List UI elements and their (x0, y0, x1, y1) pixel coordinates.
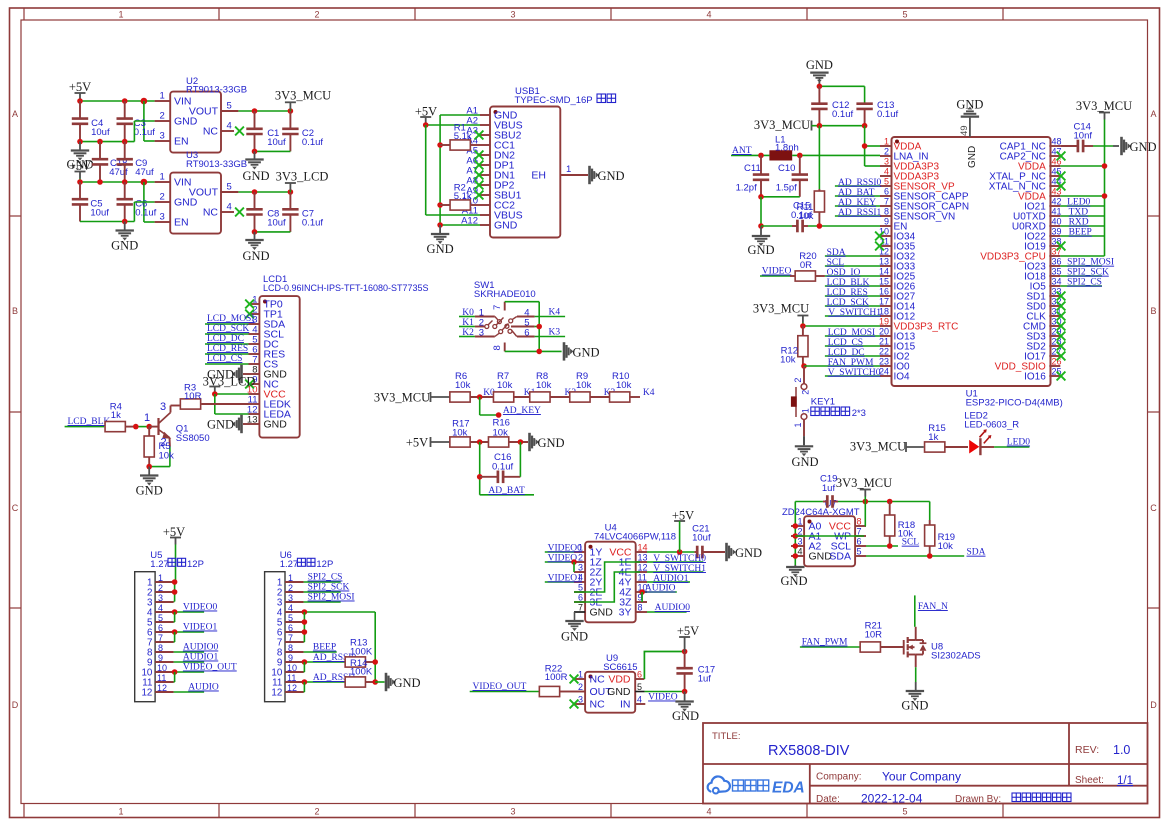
svg-text:10uf: 10uf (267, 137, 286, 148)
wire SDA pin5 (866, 555, 964, 557)
svg-text:0.1uf: 0.1uf (135, 208, 156, 219)
svg-text:K4: K4 (643, 388, 655, 398)
junction VOUT at C1 (252, 108, 258, 114)
title block rev/sheet divider (1068, 723, 1070, 786)
LCD1 pin 8 GND (249, 373, 260, 375)
svg-text:AD_KEY: AD_KEY (503, 406, 541, 416)
U7 pin 7 WP (855, 535, 866, 537)
svg-text:GND: GND (242, 249, 269, 263)
svg-text:ESP32-PICO-D4(4MB): ESP32-PICO-D4(4MB) (966, 398, 1063, 409)
svg-text:OSD_IO: OSD_IO (827, 268, 861, 278)
net label FAN_PWM wire (800, 646, 860, 648)
U3 gnd rail wire (80, 221, 134, 223)
wire 3V3 rail down right side (1104, 146, 1106, 256)
U4 pin 7 GND (574, 611, 585, 613)
ground (SW1) sideways (563, 342, 566, 360)
svg-text:4: 4 (706, 807, 711, 817)
svg-text:A: A (1150, 109, 1156, 119)
svg-text:2: 2 (158, 583, 163, 593)
wire AD_BAT vertical (479, 442, 481, 495)
svg-text:6: 6 (884, 187, 889, 197)
svg-text:TYPEC-SMD_16P: TYPEC-SMD_16P (515, 95, 593, 106)
svg-text:5: 5 (158, 613, 163, 623)
U5 pin 6 (155, 631, 174, 633)
svg-text:4: 4 (227, 121, 232, 132)
resistor R20 (790, 275, 796, 277)
svg-text:LCD-0.96INCH-IPS-TFT-16080-ST7: LCD-0.96INCH-IPS-TFT-16080-ST7735S (263, 283, 429, 293)
junction rail gnd (536, 349, 542, 355)
junction GND loop at A12 (437, 222, 443, 228)
frame row ticks left (10, 215, 22, 217)
resistor R6 (450, 392, 470, 402)
svg-text:1: 1 (118, 807, 123, 817)
U3 pin 2 GND (155, 201, 171, 203)
U7 pin 3 A2 (791, 545, 804, 547)
net label LCD_BLK wire (65, 426, 105, 428)
title block row divider 2 (810, 785, 1148, 787)
resistor R22 (539, 686, 559, 696)
wire SCL pin6 (866, 545, 898, 547)
svg-text:6: 6 (158, 623, 163, 633)
wire SW1 pin8 to gnd (505, 350, 562, 352)
title block logo cell divider (809, 764, 811, 804)
resistor R21 (860, 642, 880, 652)
net label LCD_RES wire pin16 (825, 295, 880, 297)
frame row ticks right (1148, 215, 1160, 217)
U1 pin 30 CMD (1049, 325, 1060, 327)
svg-text:1: 1 (158, 573, 163, 583)
junction U3 VOUT at C7/3V3_LCD (288, 189, 294, 195)
svg-text:12: 12 (157, 683, 167, 693)
junction +5V A2 (423, 122, 429, 128)
junction SCL R18 (887, 543, 893, 549)
U6 pin 6 (285, 631, 304, 633)
net label AD_RSSI0 wire pin5 (835, 185, 880, 187)
net label AD_RSSI1 wire pin8 (835, 215, 880, 217)
switch KEY1 lead from R12 (803, 366, 805, 384)
svg-text:1.27: 1.27 (280, 559, 299, 570)
svg-text:EN: EN (174, 136, 189, 148)
svg-text:6: 6 (637, 670, 642, 680)
svg-text:GND: GND (136, 484, 163, 498)
svg-text:GND: GND (901, 699, 928, 713)
svg-text:24: 24 (879, 367, 889, 377)
svg-text:SCL: SCL (827, 258, 845, 268)
junction R4/base (133, 424, 139, 430)
USB1 pin A6 DP1 (480, 164, 490, 166)
svg-text:0.1uf: 0.1uf (302, 218, 323, 229)
jlc eda logo cloud (708, 776, 730, 791)
wire U3 VOUT to 3V3_LCD (238, 191, 290, 193)
svg-text:5: 5 (637, 682, 642, 692)
U7 pin1 marker (808, 520, 812, 524)
wire U5 VIDEO1 pin6 (174, 631, 205, 633)
svg-text:EN: EN (174, 217, 189, 229)
svg-text:7: 7 (288, 633, 293, 643)
svg-text:Your Company: Your Company (882, 770, 961, 784)
wire C14 to gnd (1093, 145, 1113, 147)
U7 pin 4 GND (791, 555, 804, 557)
U1 pin 33 SD1 (1049, 295, 1060, 297)
resistor R2 (440, 204, 450, 206)
resistor R16 (488, 437, 508, 447)
resistor R9 (570, 392, 590, 402)
svg-text:1: 1 (884, 137, 889, 147)
svg-text:1.27: 1.27 (150, 559, 169, 570)
svg-text:C: C (12, 503, 19, 513)
svg-text:K3: K3 (549, 328, 561, 338)
LCD1 pin 9 NC (249, 383, 260, 385)
U1 pin 41 U0TXD (1049, 215, 1060, 217)
svg-text:7: 7 (492, 305, 503, 310)
ground (U8) (906, 690, 924, 692)
drawn by value (chinese) (1012, 793, 1021, 802)
ground (divider) sideways (528, 433, 531, 451)
junction U3 gnd rail at C6 (122, 219, 128, 225)
capacitor C10 (799, 155, 801, 174)
svg-text:10k: 10k (497, 380, 513, 391)
wire C12/C13 top rail (819, 85, 864, 87)
svg-text:100R: 100R (545, 672, 568, 683)
wire 3V3 to pin19 (803, 325, 880, 327)
junction U5 pin2 +5V (172, 589, 178, 595)
LCD1 pin 11 LEDK (249, 403, 260, 405)
svg-text:FAN_PWM: FAN_PWM (802, 638, 848, 648)
svg-text:GND: GND (572, 345, 599, 359)
net label AUDIO1 wire pin11 (647, 581, 690, 583)
wire SW1 pin7 to right rail (505, 301, 540, 303)
USB1 pin A11 VBUS (480, 214, 490, 216)
svg-text:100K: 100K (350, 667, 373, 678)
USB1 chinese label ChenBan (597, 94, 606, 103)
wire AD_BAT bottom (480, 494, 534, 496)
svg-text:AD_RSSI1: AD_RSSI1 (838, 208, 882, 218)
LCD1 pin 5 DC (249, 343, 260, 345)
U1 pin 3 VDDA3P3 (880, 165, 892, 167)
capacitor C15 in EN line (761, 225, 792, 227)
svg-text:LCD_MOSI: LCD_MOSI (828, 328, 876, 338)
junction base/R5 (146, 424, 152, 430)
svg-text:39: 39 (1052, 227, 1062, 237)
wire U5 AUDIO1 pin9 (174, 661, 205, 663)
wire R4 to Q1 base (126, 426, 136, 428)
svg-text:GND: GND (590, 607, 614, 619)
U7 pin 6 SCL (855, 545, 866, 547)
capacitor C4 (79, 101, 81, 119)
svg-text:1: 1 (160, 91, 165, 102)
wire U4 pin5 2E to pin13 staircase (574, 562, 640, 592)
U1 pin 17 IO14 (880, 305, 892, 307)
wire U6 pin11-pin12 (303, 682, 305, 692)
junction 3V3_LCD node (212, 391, 218, 397)
wire U7 gnd vertical left (794, 502, 796, 566)
net label SPI2_CS wire pin34 (1060, 285, 1102, 287)
wire U6 AD_RSSI1 pin11 to R14 (304, 681, 345, 683)
wire 3V3 down to R11 (818, 126, 820, 189)
ground (U2 output caps) (254, 151, 256, 158)
junction EN gnd node (758, 223, 764, 229)
svg-text:AUDIO1: AUDIO1 (183, 653, 219, 663)
USB1 pin A2 VBUS (480, 124, 490, 126)
svg-text:D: D (1150, 700, 1157, 710)
junction AD_KEY tap (477, 394, 483, 400)
svg-text:10k: 10k (576, 380, 592, 391)
U4 pin 6 3E (574, 601, 585, 603)
junction +5V / C17 top (682, 649, 688, 655)
U2 pin 2 GND (155, 120, 171, 122)
svg-text:IN: IN (620, 699, 631, 711)
op-amp U9 SC6615 body (585, 672, 635, 713)
svg-text:13: 13 (879, 257, 889, 267)
wire R12 bottom (802, 357, 804, 364)
frame column ticks top (23, 8, 25, 20)
svg-text:10nf: 10nf (1074, 131, 1093, 142)
junction L1 right at C10 (797, 153, 803, 159)
ground (Q1 emitter) (148, 467, 150, 475)
svg-text:1k: 1k (928, 432, 938, 443)
svg-text:ZD24C64A-XGMT: ZD24C64A-XGMT (782, 507, 860, 518)
junction SDA R19 (927, 553, 933, 559)
svg-text:VIDEO0: VIDEO0 (183, 603, 218, 613)
svg-text:GND: GND (427, 242, 454, 256)
svg-text:0.1uf: 0.1uf (877, 109, 898, 120)
svg-text:ANT: ANT (732, 146, 752, 156)
net label LCD_CS wire pin7 (205, 363, 249, 365)
svg-text:1: 1 (797, 517, 802, 527)
svg-text:10k: 10k (493, 428, 509, 439)
svg-text:V_SWITCH0: V_SWITCH0 (828, 368, 881, 378)
wire U5 VIDEO_OUT pin10 (174, 671, 205, 673)
frame column ticks bottom (23, 804, 25, 818)
wire pin23 FAN_PWM (804, 365, 880, 367)
resistor R11 (818, 189, 820, 191)
svg-text:8: 8 (638, 603, 643, 613)
svg-text:20: 20 (879, 327, 889, 337)
USB1 pin EH (560, 174, 588, 176)
wire SW1 pin4 to K4 (517, 316, 535, 318)
wire C1-C2 bottom (255, 150, 291, 152)
U7 pin 5 SDA (855, 555, 866, 557)
svg-text:1uf: 1uf (698, 674, 712, 685)
net label BEEP wire pin39 (1060, 235, 1104, 237)
svg-text:1/1: 1/1 (1117, 775, 1133, 787)
svg-text:SS8050: SS8050 (176, 433, 210, 444)
U7 pin 8 VCC (855, 525, 866, 527)
no-connect cross U9 pin3 (570, 700, 579, 709)
svg-text:8: 8 (158, 643, 163, 653)
U3 pin 3 EN (155, 221, 171, 223)
svg-text:48: 48 (1052, 137, 1062, 147)
svg-text:10k: 10k (455, 380, 471, 391)
net label V_SWITCH0 wire pin24 (825, 375, 880, 377)
svg-text:LCD_BLK: LCD_BLK (827, 278, 870, 288)
net label LED0 wire pin42 (1060, 205, 1104, 207)
U1 pin 23 IO0 (880, 365, 892, 367)
svg-text:SKRHADE010: SKRHADE010 (474, 289, 536, 300)
svg-text:3V3_MCU: 3V3_MCU (374, 391, 430, 405)
svg-text:10uf: 10uf (90, 208, 109, 219)
wire R9-R10 K3 (590, 396, 610, 398)
resistor R14 (345, 677, 365, 687)
svg-text:2: 2 (884, 147, 889, 157)
svg-text:C10: C10 (778, 163, 795, 174)
wire U3 EN tap down (143, 182, 145, 222)
svg-text:3: 3 (160, 131, 165, 142)
resistor R19 (929, 502, 931, 521)
svg-text:GND: GND (242, 169, 269, 183)
svg-text:GND: GND (561, 630, 588, 644)
svg-text:10k: 10k (536, 380, 552, 391)
wire U5 AUDIO0 pin8 (174, 651, 205, 653)
svg-text:Drawn By:: Drawn By: (955, 794, 1001, 805)
svg-text:3V3_LCD: 3V3_LCD (276, 170, 329, 184)
svg-text:VIDEO_OUT: VIDEO_OUT (473, 682, 527, 692)
U1 pin 4 VDDA3P3 (880, 175, 892, 177)
net label K1 wire (459, 326, 475, 328)
svg-text:3V3_MCU: 3V3_MCU (754, 118, 810, 132)
svg-text:+5V: +5V (406, 436, 428, 450)
svg-text:3: 3 (510, 10, 515, 20)
junction C17 bottom (682, 689, 688, 695)
net label V_SWITCH1 wire pin18 (825, 315, 880, 317)
svg-text:2: 2 (314, 807, 319, 817)
USB1 pin A12 GND (480, 224, 490, 226)
svg-text:1: 1 (118, 10, 123, 20)
junction U7 pin3 (793, 543, 799, 549)
U6 pin 9 (285, 661, 304, 663)
svg-text:V_SWITCH1: V_SWITCH1 (828, 308, 881, 318)
ground (C14) sideways (1120, 137, 1123, 155)
wire LED2 to LED0 label (980, 446, 994, 448)
svg-text:4: 4 (884, 167, 889, 177)
svg-text:GND: GND (791, 455, 818, 469)
svg-text:SPI2_CS: SPI2_CS (1067, 278, 1102, 288)
ground (C21) sideways (725, 543, 728, 561)
svg-text:7: 7 (578, 603, 583, 613)
svg-text:LED-0603_R: LED-0603_R (964, 420, 1019, 431)
wire U4 pin10-pin9 (641, 592, 643, 602)
svg-text:TITLE:: TITLE: (712, 731, 741, 742)
wire U4 pin2-pin3 (573, 562, 575, 572)
junction U4 pin2 (571, 559, 577, 565)
U5 pin 3 (155, 601, 174, 603)
ground (U9/C17) (684, 692, 686, 701)
svg-text:AD_KEY: AD_KEY (838, 198, 876, 208)
svg-text:47uf: 47uf (135, 167, 154, 178)
svg-text:13: 13 (247, 415, 258, 426)
svg-text:AUDIO0: AUDIO0 (655, 603, 691, 613)
junction U5 pin4 (172, 609, 178, 615)
net label V_SWITCH0 wire pin13 (647, 561, 703, 563)
net label SPI2_SCK wire pin35 (1060, 275, 1102, 277)
resistor R4 (105, 422, 125, 432)
svg-text:8: 8 (857, 517, 862, 527)
junction R12/KEY1/FAN_PWM (801, 363, 807, 369)
svg-text:10k: 10k (798, 211, 814, 222)
svg-text:19: 19 (879, 317, 889, 327)
wire 3V3_LCD down to LEDA pin12 (214, 394, 216, 414)
wire U6 pin9-pin10 (303, 662, 305, 672)
U9 pin 1 NC (574, 678, 585, 680)
U6 pin 8 (285, 651, 304, 653)
U6 pin 1 (285, 581, 304, 583)
wire U5 pin10-pin11 (174, 672, 176, 682)
capacitor C8 (254, 192, 256, 209)
no-connect crosses U1 pins 10,11 left (875, 232, 884, 241)
U1 pin 19 VDD3P3_RTC (880, 325, 892, 327)
svg-text:1.2pf: 1.2pf (736, 183, 757, 194)
U9 pin 6 VDD (635, 678, 644, 680)
U6 pin 5 (285, 621, 304, 623)
junction R14 right rail (372, 679, 378, 685)
U9 pin1 marker (589, 675, 593, 679)
transistor Q1 SS8050 (149, 426, 158, 428)
net label K2 wire (459, 336, 475, 338)
wire U4 pin6 3E to pin12 staircase (574, 572, 640, 602)
U1 pin 26 VDD_SDIO (1049, 365, 1060, 367)
junction R16/C16 right (518, 439, 524, 445)
U6 pin 4 (285, 611, 304, 613)
U5 pin 12 (155, 691, 174, 693)
ground (U3 input rail) (124, 222, 126, 230)
wire +5V down to U5 pins 1-3 (174, 582, 176, 602)
switch KEY1 membrane switch (801, 384, 807, 390)
svg-text:VIDEO: VIDEO (762, 267, 792, 277)
LCD1 pin 2 TP1 (249, 313, 260, 315)
svg-text:40: 40 (1052, 217, 1062, 227)
svg-text:LCD_RES: LCD_RES (827, 288, 868, 298)
svg-text:RXD: RXD (1069, 218, 1089, 228)
svg-text:GND: GND (607, 686, 631, 698)
U1 pin 39 IO22 (1049, 235, 1060, 237)
svg-text:A: A (12, 109, 18, 119)
wire VDDA rail down (864, 126, 866, 166)
svg-text:+5V: +5V (69, 80, 91, 94)
U7 pin 1 A0 (791, 525, 804, 527)
USB1 pin A7 DN1 (480, 174, 490, 176)
svg-text:4: 4 (158, 603, 163, 613)
svg-text:2: 2 (314, 10, 319, 20)
capacitor C21 (694, 551, 697, 553)
wire R21 to U8 gate (881, 646, 904, 648)
junction U3 rail at C5 (77, 179, 83, 185)
resistor R3 lead to LEDK pin11 (201, 403, 248, 405)
junction C16 left (477, 474, 483, 480)
U1 pin1 marker (895, 140, 899, 144)
U1 pin 14 IO25 (880, 275, 892, 277)
op-amp U7 ZD24C64A body (804, 516, 855, 566)
svg-text:21: 21 (879, 337, 889, 347)
U1 pin 46 VDDA (1049, 165, 1060, 167)
wire U6 pin4 to R13/R14 gnd rail (304, 611, 376, 613)
resistor R12 (802, 326, 804, 336)
svg-text:10k: 10k (159, 451, 175, 462)
svg-text:SC6615: SC6615 (603, 662, 637, 673)
U1 pin 48 CAP1_NC (1049, 145, 1060, 147)
svg-text:GND: GND (111, 239, 138, 253)
jlc eda logo text (733, 780, 744, 791)
svg-text:SPI2_MOSI: SPI2_MOSI (1067, 258, 1114, 268)
svg-text:GND: GND (747, 243, 774, 257)
U4 pin 13 1E (636, 561, 647, 563)
U1 pin 13 IO33 (880, 265, 892, 267)
svg-text:10uf: 10uf (692, 533, 711, 544)
svg-text:1uf: 1uf (822, 483, 836, 494)
junction U5 pin1 +5V (172, 579, 178, 585)
no-connect cross U9 pin1 (570, 675, 579, 684)
junction gnd rail at C18 (97, 139, 103, 145)
wire R8-R9 K2 (550, 396, 570, 398)
